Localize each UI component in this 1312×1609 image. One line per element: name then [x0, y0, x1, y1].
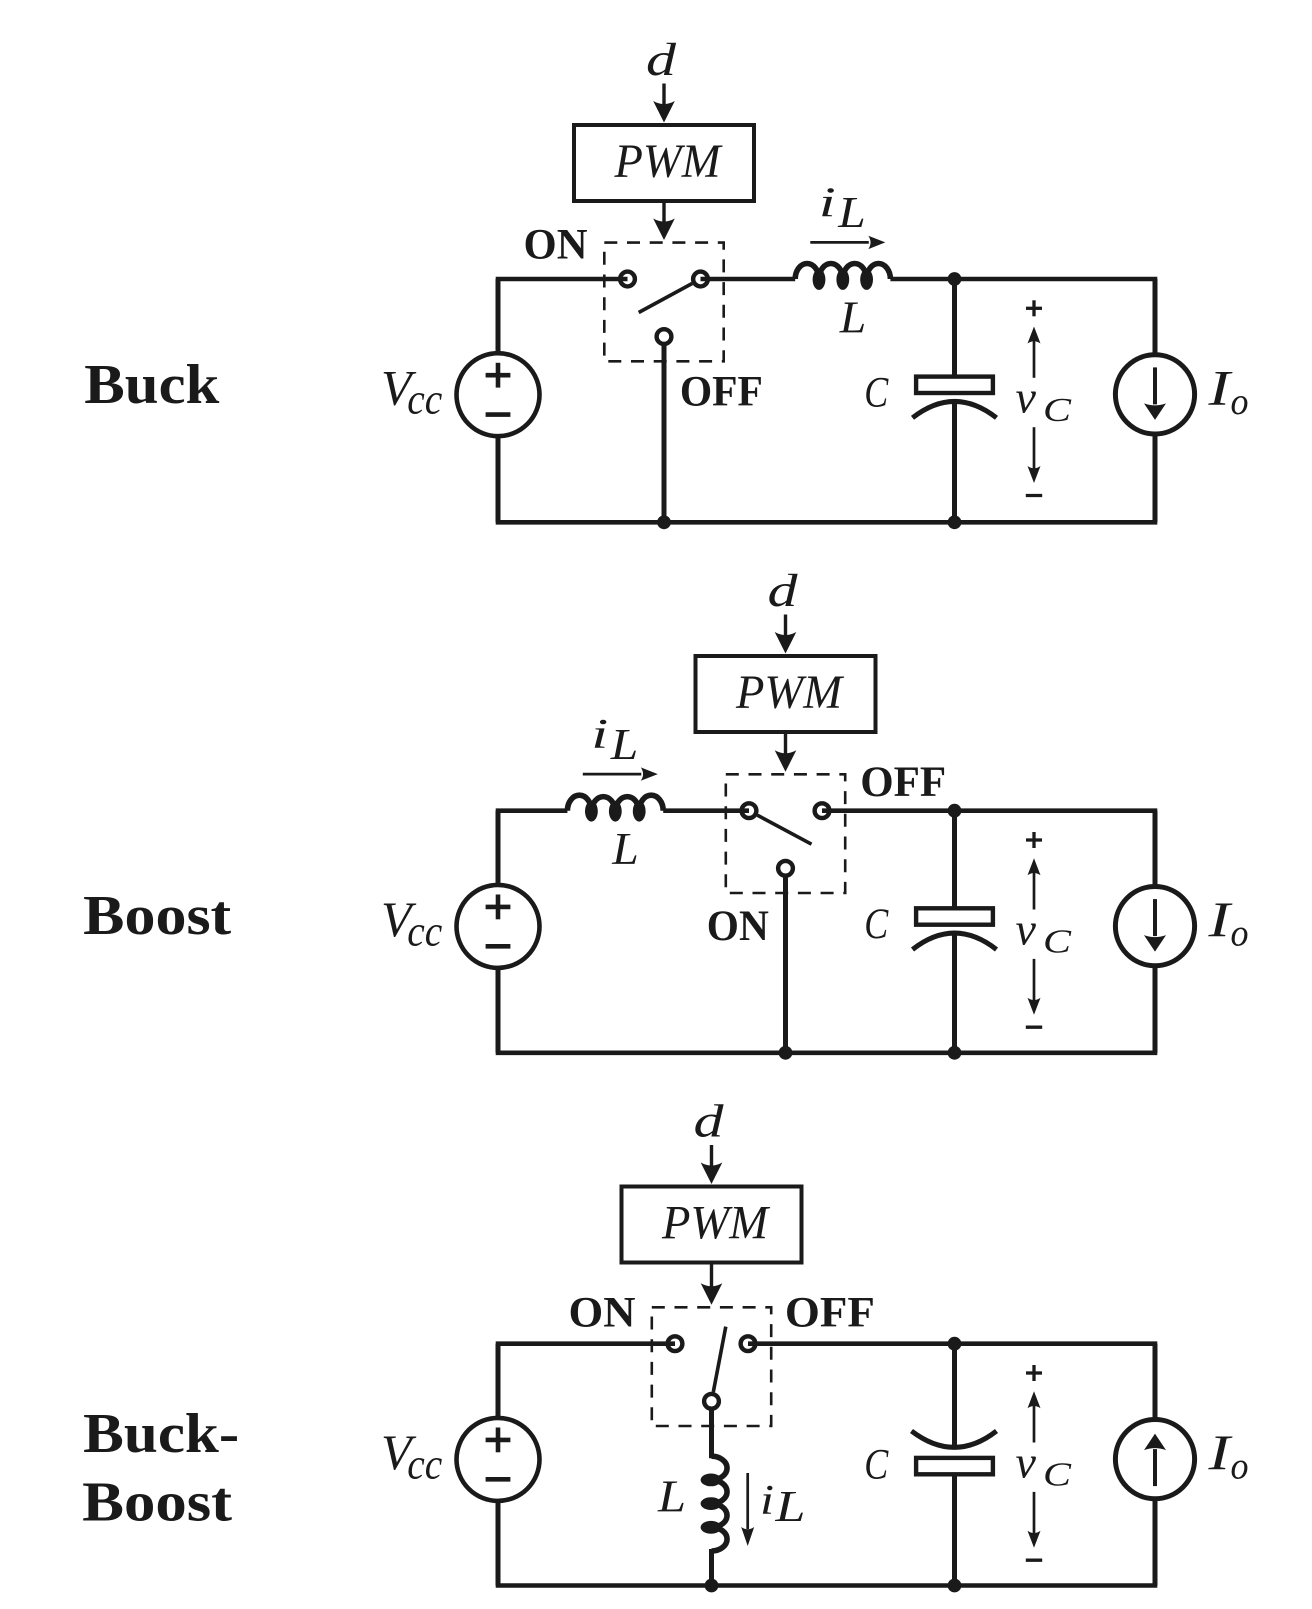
- switch S1 right terminal: [693, 272, 708, 287]
- switch S1 dashed box: [604, 243, 723, 362]
- svg-text:OFF: OFF: [860, 759, 946, 806]
- arrow vC up: [1033, 340, 1036, 378]
- arrow vC down: [1033, 1492, 1036, 1534]
- arrow vC up: [1033, 872, 1036, 910]
- svg-text:ON: ON: [707, 903, 769, 950]
- switch S2 right terminal: [815, 803, 830, 818]
- svg-text:d: d: [694, 1096, 725, 1148]
- inductor L2: [567, 795, 591, 811]
- switch S3 lever: [713, 1327, 726, 1392]
- svg-text:v: v: [1016, 1436, 1037, 1487]
- svg-text:C: C: [1043, 1457, 1071, 1494]
- wire PWM arrow to switch: [662, 201, 665, 222]
- svg-text:ON: ON: [569, 1290, 636, 1337]
- voltage source Vcc (circuit 1): [457, 353, 540, 436]
- svg-text:C: C: [864, 370, 889, 417]
- PWM block U3: [622, 1187, 802, 1263]
- junction dot pole-bottom rail: [779, 1046, 793, 1060]
- svg-text:cc: cc: [407, 1441, 442, 1488]
- junction dot pole-bottom rail: [657, 515, 671, 529]
- junction dot inductor-bottom rail: [705, 1579, 719, 1593]
- switch S3 dashed box: [652, 1307, 771, 1426]
- wire left branch lower: [496, 968, 501, 1053]
- wire inductor to bottom rail: [709, 1549, 714, 1586]
- wire left branch upper: [496, 279, 501, 353]
- PWM block U1: [574, 125, 754, 201]
- svg-text:cc: cc: [407, 908, 442, 955]
- wire d arrow into PWM: [662, 84, 665, 109]
- capacitor C3: [952, 1344, 957, 1447]
- current source Io (circuit 1): [1115, 355, 1194, 434]
- wire left branch lower: [496, 436, 501, 522]
- wire coil to switch: [663, 808, 749, 813]
- switch S2 lever: [757, 815, 811, 844]
- PWM block U2: [696, 656, 876, 732]
- svg-text:d: d: [768, 565, 799, 617]
- svg-text:L: L: [657, 1472, 686, 1522]
- svg-text:d: d: [646, 34, 677, 86]
- label - (vC polarity): [1026, 1559, 1042, 1562]
- wire right branch lower: [1153, 435, 1158, 522]
- wire pole to inductor: [709, 1409, 714, 1459]
- svg-text:v: v: [1016, 903, 1037, 954]
- switch S3 left terminal: [668, 1336, 683, 1351]
- junction dot capacitor-top rail: [948, 272, 962, 286]
- capacitor C1: [952, 279, 957, 377]
- arrow iL: [810, 241, 869, 244]
- wire bottom rail: [496, 1583, 1158, 1588]
- wire top rail left segment: [496, 808, 568, 813]
- svg-text:o: o: [1231, 1446, 1249, 1488]
- label - (vC polarity): [1026, 1026, 1042, 1029]
- wire right branch upper: [1153, 1344, 1158, 1419]
- svg-text:ON: ON: [524, 221, 588, 268]
- svg-text:i: i: [760, 1478, 774, 1524]
- switch S2 pole terminal: [778, 861, 793, 876]
- wire pole branch to bottom rail: [662, 344, 667, 523]
- wire right branch lower: [1153, 1500, 1158, 1586]
- voltage source Vcc (circuit 3): [457, 1418, 540, 1501]
- label - (vC polarity): [1026, 494, 1042, 497]
- wire switch to coil: [701, 277, 796, 282]
- svg-text:I: I: [1207, 359, 1233, 415]
- voltage source Vcc (circuit 2): [457, 885, 540, 968]
- current source Io (circuit 2): [1115, 887, 1194, 966]
- wire d arrow into PWM: [710, 1145, 713, 1170]
- svg-text:v: v: [1016, 372, 1037, 423]
- svg-text:Buck: Buck: [84, 354, 220, 416]
- svg-text:o: o: [1231, 381, 1249, 423]
- wire top rail left segment: [496, 277, 628, 282]
- label + (vC polarity): [1026, 838, 1042, 841]
- svg-text:C: C: [1043, 392, 1071, 429]
- svg-text:I: I: [1207, 1424, 1233, 1480]
- junction dot capacitor-bottom rail: [948, 1579, 962, 1593]
- label + (vC polarity): [1026, 307, 1042, 310]
- wire PWM arrow to switch: [784, 732, 787, 754]
- wire left branch lower: [496, 1501, 501, 1586]
- wire coil to output node: [890, 277, 1157, 282]
- arrow vC down: [1033, 427, 1036, 469]
- wire right branch upper: [1153, 811, 1158, 886]
- svg-text:C: C: [1043, 924, 1071, 961]
- svg-text:Boost: Boost: [83, 885, 231, 947]
- switch S1 left terminal: [620, 272, 635, 287]
- svg-text:OFF: OFF: [680, 369, 763, 416]
- switch S2 left terminal: [742, 803, 757, 818]
- switch S3 pole terminal: [704, 1394, 719, 1409]
- junction dot capacitor-top rail: [948, 804, 962, 818]
- svg-text:L: L: [837, 188, 866, 237]
- switch S2 dashed box: [726, 774, 845, 893]
- arrow vC up: [1033, 1405, 1036, 1443]
- svg-text:PWM: PWM: [614, 135, 724, 188]
- svg-text:C: C: [864, 1441, 889, 1488]
- junction dot capacitor-top rail: [948, 1337, 962, 1351]
- label + (vC polarity): [1026, 1371, 1042, 1374]
- wire switch to output node: [822, 808, 1157, 813]
- svg-text:cc: cc: [407, 377, 442, 424]
- arrow vC down: [1033, 959, 1036, 1001]
- switch S1 pole terminal: [657, 329, 672, 344]
- wire PWM arrow to switch: [710, 1263, 713, 1287]
- arrow iL: [583, 773, 642, 776]
- current source Io (circuit 3): [1115, 1420, 1194, 1499]
- svg-text:L: L: [610, 720, 639, 769]
- wire right branch lower: [1153, 967, 1158, 1053]
- wire pole branch to bottom rail: [783, 876, 788, 1053]
- svg-text:i: i: [819, 181, 836, 227]
- junction dot capacitor-bottom rail: [948, 515, 962, 529]
- svg-text:OFF: OFF: [785, 1290, 875, 1337]
- wire left branch upper: [496, 1344, 501, 1418]
- junction dot capacitor-bottom rail: [948, 1046, 962, 1060]
- switch S1 lever: [639, 284, 692, 313]
- svg-text:L: L: [839, 292, 867, 342]
- svg-text:L: L: [774, 1482, 805, 1531]
- arrow iL: [746, 1473, 749, 1529]
- capacitor C2: [952, 811, 957, 909]
- svg-text:C: C: [864, 901, 889, 948]
- svg-text:L: L: [611, 824, 639, 874]
- inductor L1: [795, 264, 819, 280]
- svg-text:I: I: [1207, 891, 1233, 947]
- wire top rail right segment: [748, 1341, 1157, 1346]
- switch S3 right terminal: [741, 1336, 756, 1351]
- svg-text:Boost: Boost: [82, 1472, 232, 1534]
- wire left branch upper: [496, 811, 501, 885]
- wire bottom rail: [496, 520, 1158, 525]
- inductor L3 (vertical): [712, 1456, 728, 1480]
- svg-text:PWM: PWM: [661, 1197, 771, 1250]
- wire bottom rail: [496, 1051, 1158, 1056]
- wire d arrow into PWM: [784, 615, 787, 640]
- svg-text:i: i: [591, 712, 608, 758]
- svg-text:Buck-: Buck-: [83, 1403, 239, 1465]
- svg-text:o: o: [1231, 913, 1249, 955]
- wire top rail left segment: [496, 1341, 675, 1346]
- svg-text:PWM: PWM: [735, 666, 845, 719]
- wire right branch upper: [1153, 279, 1158, 354]
